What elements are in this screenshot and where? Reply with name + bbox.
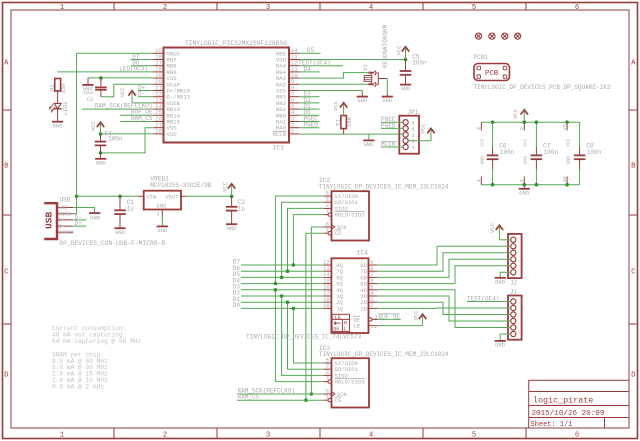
svg-text:GND: GND (480, 156, 486, 165)
net PGED at JP1 pin4 (381, 127, 403, 129)
wire IC2 CS down to RAM_CS (306, 233, 323, 400)
led LED1 (50, 103, 62, 111)
svg-text:PGED: PGED (381, 122, 396, 129)
junction C4 bottom (99, 151, 103, 155)
svg-text:MCLR: MCLR (273, 131, 287, 138)
svg-text:LE: LE (354, 323, 361, 330)
ic IC2 pins (323, 190, 364, 238)
wire MCLR net IC1 pin1 to JP1 pin3 (299, 133, 403, 135)
svg-text:VCC: VCC (119, 87, 126, 98)
mounting holes (475, 33, 520, 39)
svg-text:CS: CS (335, 230, 342, 237)
svg-text:C: C (631, 269, 636, 277)
svg-text:GND: GND (357, 97, 368, 104)
ground GND below LED1 (57, 109, 59, 122)
svg-text:8: 8 (476, 127, 482, 130)
svg-text:100n: 100n (587, 149, 602, 156)
connector USB micro-B (44, 203, 57, 239)
svg-text:R1: R1 (335, 119, 342, 126)
svg-text:28: 28 (155, 128, 162, 135)
svg-text:1D: 1D (360, 305, 367, 312)
wire IC4 1D to J1 pin2 (377, 307, 510, 309)
capacitor C3 (100, 78, 102, 87)
wire IC4 4D to J1 pin5 (377, 290, 510, 328)
wire IC4 3D to J1 pin4 (377, 296, 510, 321)
net RAM_CS at IC1 pin26 (120, 121, 154, 123)
wire IC4 7D to J2 pin3 (377, 253, 510, 271)
wire IC1 pin9 RA2 to resonator bottom (299, 83, 368, 85)
svg-text:4: 4 (476, 179, 482, 182)
ic IC4 left pins 12-19 (323, 259, 343, 313)
svg-text:GND: GND (495, 342, 506, 349)
supply VCC arrow at JP1 (427, 129, 434, 134)
svg-text:D: D (4, 372, 8, 380)
svg-text:Sheet: 1/1: Sheet: 1/1 (531, 421, 573, 429)
svg-text:J2: J2 (510, 279, 518, 286)
svg-text:RESONATORGRM: RESONATORGRM (382, 24, 389, 68)
svg-text:D5: D5 (307, 47, 315, 54)
frame column ticks (114, 3, 526, 439)
svg-text:D-: D- (58, 218, 64, 224)
svg-text:USB: USB (44, 211, 55, 229)
wire IC4 5D to J2 pin5 (377, 266, 510, 284)
svg-text:TEST(OC4): TEST(OC4) (467, 295, 499, 302)
svg-text:LED(OC3): LED(OC3) (119, 66, 148, 73)
svg-text:VDD: VDD (167, 131, 178, 138)
wire USB net vertical (76, 53, 78, 196)
wire IC4 LE to VCC (377, 325, 422, 327)
wire J2 pin6 to GND (500, 272, 511, 277)
svg-text:GND: GND (495, 279, 506, 286)
supply VCC arrow at R1 (340, 103, 347, 108)
ground GND below C4 (100, 153, 102, 158)
wire IC4 2D to J1 pin3 (377, 302, 510, 314)
svg-text:1Q: 1Q (336, 305, 343, 312)
ic IC1 right pins 14-1 (273, 47, 299, 138)
svg-text:IC1: IC1 (273, 144, 285, 151)
svg-text:D: D (631, 372, 635, 380)
junction C2 VCC (230, 195, 234, 199)
wire resonator to GND (386, 79, 388, 93)
svg-text:6: 6 (575, 432, 579, 440)
svg-text:Gn: Gn (333, 327, 339, 333)
svg-text:VIN: VIN (146, 194, 156, 201)
svg-text:GND: GND (566, 156, 572, 165)
svg-text:IC4: IC4 (357, 250, 369, 257)
svg-text:VCC: VCC (523, 138, 529, 147)
svg-text:D+: D+ (75, 220, 83, 227)
svg-text:RAM_CS: RAM_CS (131, 115, 153, 122)
svg-text:D4: D4 (304, 66, 312, 73)
svg-text:VCC: VCC (412, 310, 419, 321)
junction C5 (404, 58, 408, 62)
power pins 20/10 at x=567.1 (562, 120, 572, 186)
frame column numbers bottom (60, 432, 579, 440)
supply VCC arrow at bypass rail (521, 110, 528, 115)
svg-text:DP_DEVICES_CON-USB-F-MICRO-B: DP_DEVICES_CON-USB-F-MICRO-B (59, 240, 165, 247)
capacitor C4 (100, 134, 102, 141)
frame row ticks (3, 110, 638, 324)
ic IC3 23LC1024 box (332, 358, 370, 407)
junction D6 IC2 (286, 269, 290, 273)
wire VOUT to VCC junction (186, 195, 231, 197)
supply VCC arrow at C5 (402, 47, 409, 52)
svg-text:VCC: VCC (566, 138, 572, 147)
notes current consumption text (52, 325, 141, 390)
svg-text:3: 3 (156, 212, 159, 218)
ground GND at C3 (87, 78, 89, 85)
connector JP1 pins (403, 119, 416, 151)
svg-text:10K: 10K (346, 116, 353, 127)
svg-text:GND: GND (53, 122, 64, 129)
svg-text:GND: GND (157, 227, 168, 234)
svg-text:D+: D+ (58, 224, 64, 230)
svg-text:VCC: VCC (90, 120, 97, 131)
svg-text:100n: 100n (412, 60, 427, 67)
svg-text:J1: J1 (510, 289, 518, 296)
vreg pin stubs (138, 195, 143, 197)
svg-text:7: 7 (326, 375, 329, 382)
resonator X1 (364, 71, 387, 87)
ic IC4 latch truth table (332, 314, 349, 332)
svg-text:PGED: PGED (304, 122, 319, 129)
svg-text:D0: D0 (233, 302, 241, 309)
ic IC4 LE pin (369, 325, 378, 327)
svg-text:PCB: PCB (485, 70, 499, 78)
ic IC2 23LC1024 box (332, 191, 370, 240)
svg-text:100n: 100n (500, 149, 515, 156)
wire IC2 HOLD to D7 (293, 215, 323, 265)
ground GND below C5 (400, 84, 411, 86)
svg-text:1u: 1u (238, 205, 246, 212)
svg-text:CS: CS (335, 397, 342, 404)
svg-text:1: 1 (60, 4, 64, 12)
svg-text:L: L (344, 327, 347, 333)
wire VBUS to USB net vertical (77, 52, 154, 54)
svg-text:VCC: VCC (480, 138, 486, 147)
svg-text:4: 4 (369, 4, 373, 12)
svg-text:100n: 100n (108, 136, 123, 143)
frame row letters right (631, 60, 636, 380)
svg-text:GND: GND (382, 97, 393, 104)
svg-text:5: 5 (472, 4, 476, 12)
svg-text:GND: GND (523, 156, 529, 165)
svg-text:B: B (631, 163, 636, 171)
net TEST(OC4) at J1 pin1 (467, 301, 511, 303)
capacitor C7 100n (531, 120, 559, 186)
svg-text:1: 1 (412, 144, 416, 151)
svg-text:100n: 100n (544, 149, 559, 156)
svg-text:3: 3 (266, 4, 270, 12)
connector J2 pins (511, 237, 516, 275)
junction C4 top (99, 132, 103, 136)
svg-text:JP1: JP1 (407, 109, 418, 116)
wire USB GND pin to ground (73, 208, 94, 213)
svg-text:GND: GND (363, 141, 374, 148)
net D3 at IC1 pin7 (299, 96, 320, 98)
svg-text:TINYLOGIC_PIC32MX250F128BSO: TINYLOGIC_PIC32MX250F128BSO (185, 40, 287, 47)
capacitor C6 100n (487, 120, 515, 186)
wire IC1 pin28 VDD to C4 top (101, 133, 154, 135)
svg-text:64 mA capturing @ 60 MHz: 64 mA capturing @ 60 MHz (52, 338, 141, 345)
svg-text:A: A (631, 60, 636, 68)
ic IC4 74LVC573 box (331, 258, 368, 333)
power pins 8/4 at x=524.3 (519, 122, 529, 185)
svg-text:VCC: VCC (333, 100, 340, 111)
junction D1 IC3 (286, 300, 290, 304)
net RAM_SCK(REFCLKO) at IC1 pin24 (82, 108, 154, 110)
wire IC2 SO to D5 (282, 202, 324, 277)
wire VCC to J2 pin1 (499, 239, 510, 241)
svg-text:MCP1825S-3302E/DB: MCP1825S-3302E/DB (150, 182, 212, 189)
svg-text:GND: GND (96, 159, 107, 166)
wire IC2 SCK down to RAM_SCK (311, 227, 323, 394)
ground GND below C1 (114, 227, 125, 229)
bus D7-D0 horizontal wires and labels (233, 259, 324, 309)
svg-text:GND: GND (227, 225, 238, 232)
ground GND right of resonator (386, 93, 388, 96)
supply VCC arrow at VOUT (228, 184, 235, 189)
svg-text:2: 2 (163, 4, 167, 12)
svg-text:D-: D- (138, 91, 145, 98)
ground GND below J1 (495, 340, 506, 342)
svg-text:20: 20 (562, 124, 568, 130)
svg-text:VCC: VCC (420, 123, 427, 134)
svg-text:PCB1: PCB1 (474, 54, 489, 61)
junction C1 tap (118, 195, 122, 199)
wire IC1 pin13 VDD to C5 junction (299, 59, 406, 61)
svg-text:VCC: VCC (222, 181, 229, 192)
svg-text:C3: C3 (86, 96, 93, 103)
usb pin stubs and names (57, 205, 73, 236)
svg-text:TINYLOGIC_DP_DEVICES_IC_74LVC5: TINYLOGIC_DP_DEVICES_IC_74LVC573 (246, 334, 362, 341)
svg-text:VCC: VCC (512, 108, 519, 119)
svg-text:USBID: USBID (58, 230, 73, 236)
net D7 at IC1 pin16 (131, 59, 154, 61)
junction RAM_CS (304, 398, 308, 402)
svg-text:logic_pirate: logic_pirate (533, 396, 593, 406)
net D1 at IC1 pin5 (299, 108, 320, 110)
ground GND at USB (89, 212, 100, 214)
junction GND stem (523, 183, 527, 187)
net PGED at IC1 pin2 (299, 127, 320, 129)
wire IC2 SIO2 to D6 (288, 208, 324, 271)
bypass rail GND bottom (481, 184, 579, 186)
svg-text:VCC: VCC (396, 45, 403, 56)
svg-text:TINYLOGIC_DP_DEVICES_PCB_DP_SQ: TINYLOGIC_DP_DEVICES_PCB_DP_SQUARE-3X3 (474, 84, 611, 91)
ground GND below bypass rail (523, 185, 525, 189)
wire IC2 SI to D4 (275, 196, 323, 284)
net RAM_SCK(REFCLKO) wire to IC3 (237, 393, 323, 395)
wire IC4 6D to J2 pin4 (377, 259, 510, 277)
svg-text:5: 5 (472, 432, 476, 440)
svg-text:11: 11 (370, 323, 377, 330)
capacitor C1 (119, 196, 121, 210)
supply VCC arrow at IC1 pin23 VUSB (128, 91, 135, 96)
pcb outline PCB1 (474, 64, 510, 81)
net D4 at IC1 pin11 (299, 71, 320, 73)
supply VCC arrow at J2 (496, 225, 503, 230)
svg-text:GND: GND (156, 202, 167, 209)
net BUF_OE at IC4 (377, 318, 400, 320)
resistor R2 330 (55, 79, 61, 92)
connector J1 pins (511, 299, 516, 337)
net RAM_CS wire to IC3 (237, 399, 323, 401)
svg-text:H: H (344, 321, 347, 327)
net D+ at IC1 pin21 (138, 90, 154, 92)
svg-text:C: C (4, 269, 9, 277)
net PGEC at IC1 pin3 (299, 121, 320, 123)
junction D5 IC2 (280, 276, 284, 280)
wire VREG GND to ground (161, 217, 163, 226)
junction D3 IC3 (274, 288, 278, 292)
svg-text:19: 19 (323, 302, 330, 309)
svg-text:GND: GND (519, 190, 530, 197)
wire IC1 pin27 VSS down to C4 bottom (101, 128, 154, 153)
junction VCC stem (523, 120, 527, 124)
svg-text:USB: USB (60, 197, 71, 204)
connector J1 box (508, 296, 522, 340)
ground GND below J2 (495, 277, 506, 279)
net USB rail wire (77, 195, 139, 197)
svg-text:A: A (4, 60, 9, 68)
wire VUSB pin23 (132, 102, 153, 104)
supply VCC arrow at C4 (97, 122, 104, 127)
svg-text:2: 2 (163, 432, 167, 440)
junction D0 IC3 (292, 307, 296, 311)
title block frame (529, 380, 629, 428)
frame column numbers top (60, 4, 579, 12)
wire IC1 pin19 VSS to GND and C3 (88, 77, 154, 79)
svg-text:RAM_CS: RAM_CS (238, 394, 260, 401)
junction C3 top (99, 76, 103, 80)
wire IC3 HOLD to D3 (275, 290, 323, 382)
net BUF_OE at IC1 pin25 (120, 114, 154, 116)
svg-text:VCC: VCC (489, 222, 496, 233)
svg-text:7: 7 (326, 208, 329, 215)
svg-text:0.6 mA @ 2 kHz: 0.6 mA @ 2 kHz (52, 383, 104, 390)
wire R2 bottom to LED1 (57, 91, 59, 103)
wire JP1 pin2 to VCC (408, 140, 431, 142)
svg-text:6: 6 (575, 4, 579, 12)
svg-text:3: 3 (266, 432, 270, 440)
svg-text:4: 4 (369, 432, 373, 440)
junction D7 IC2 (292, 263, 296, 267)
svg-text:B: B (4, 163, 9, 171)
wire C3 to IC1 pin20 VCAP (101, 84, 154, 97)
wire IC4 8D to J2 pin2 (377, 246, 510, 265)
voltage regulator VREG1 box (144, 191, 181, 210)
svg-text:HOLD/SIO3: HOLD/SIO3 (335, 212, 365, 219)
svg-text:BUF_OE: BUF_OE (378, 313, 400, 320)
ic IC4 right pins 9-2 (360, 259, 377, 313)
svg-text:R2: R2 (49, 84, 56, 91)
capacitor C8 100n (574, 122, 602, 185)
net D0 at IC1 pin4 (299, 114, 320, 116)
supply VCC arrow at IC4 LE (419, 314, 426, 319)
capacitor C2 (231, 196, 233, 206)
wire VUSB to USB net (73, 196, 76, 213)
net D5 at IC1 pin14 (299, 52, 321, 54)
ic U IC1 PIC32MX250F128B box (164, 48, 290, 143)
svg-text:TINYLOGIC_DP_DEVICES_IC_MEM_23: TINYLOGIC_DP_DEVICES_IC_MEM_23LC1024 (319, 351, 449, 358)
svg-text:HOLD/SIO3: HOLD/SIO3 (335, 379, 365, 386)
wire IC1 pin10 RA3 to resonator top (299, 73, 368, 79)
net D2 at IC1 pin6 (299, 102, 320, 104)
bypass rail VCC top (481, 121, 579, 123)
frame row letters left (4, 60, 9, 380)
net D- at USB (73, 219, 86, 221)
capacitor C5 (405, 60, 407, 71)
connector JP1 box (399, 116, 419, 154)
junction USB corner (75, 195, 79, 199)
svg-text:1: 1 (60, 432, 64, 440)
svg-text:GND: GND (90, 215, 101, 222)
ground GND below C2 (226, 223, 237, 225)
svg-text:2: 2 (370, 302, 373, 309)
net D+ at USB (73, 225, 86, 227)
ground GND stub on MCLR wire (368, 134, 370, 140)
junction RAM_SCK (310, 392, 314, 396)
net MCLR at JP1 pin1 (381, 146, 403, 148)
connector J2 box (508, 234, 522, 278)
net D6 at IC1 pin17 (131, 65, 154, 67)
svg-text:GND: GND (115, 229, 126, 236)
wire IC3 SI to D0 (293, 308, 323, 363)
svg-text:LED1: LED1 (62, 101, 69, 115)
resistor R1 10K (341, 116, 347, 129)
svg-text:10: 10 (562, 176, 568, 182)
net PGEC at JP1 pin5 (381, 121, 403, 123)
svg-text:330: 330 (60, 83, 67, 94)
net TEST(OC4) at IC1 pin12 (299, 65, 343, 67)
junction D2 IC3 (280, 294, 284, 298)
ic IC4 OE pin (372, 318, 377, 320)
svg-text:VUSB: VUSB (58, 211, 70, 217)
power pins 8/4 at x=481.3 (476, 122, 486, 185)
junction D4 IC2 (274, 282, 278, 286)
svg-text:2015/10/26 20:09: 2015/10/26 20:09 (532, 410, 605, 418)
ground GND below VREG1 (157, 225, 168, 227)
wire IC3 SO to D1 (288, 302, 324, 369)
ic IC1 left pins 15-28 (154, 47, 191, 138)
net D- at IC1 pin22 (138, 96, 154, 98)
svg-text:1u: 1u (127, 205, 135, 212)
ground GND left of resonator (361, 93, 363, 96)
net LED(OC3) at IC1 pin18 (58, 71, 154, 73)
svg-text:GND: GND (58, 205, 67, 211)
wire J1 pin6 to GND (500, 334, 511, 340)
ic IC3 pins (323, 357, 364, 405)
svg-text:TINYLOGIC_DP_DEVICES_IC_MEM_23: TINYLOGIC_DP_DEVICES_IC_MEM_23LC1024 (319, 183, 449, 190)
svg-text:8: 8 (519, 127, 525, 130)
wire IC1 pin8 VSS to GND (299, 91, 362, 93)
svg-text:4: 4 (519, 179, 525, 182)
svg-text:VOUT: VOUT (165, 194, 179, 201)
svg-text:LE: LE (335, 315, 341, 321)
svg-text:GND: GND (400, 85, 411, 92)
wire IC3 SIO2 to D2 (282, 296, 324, 375)
svg-text:X1: X1 (362, 64, 369, 71)
